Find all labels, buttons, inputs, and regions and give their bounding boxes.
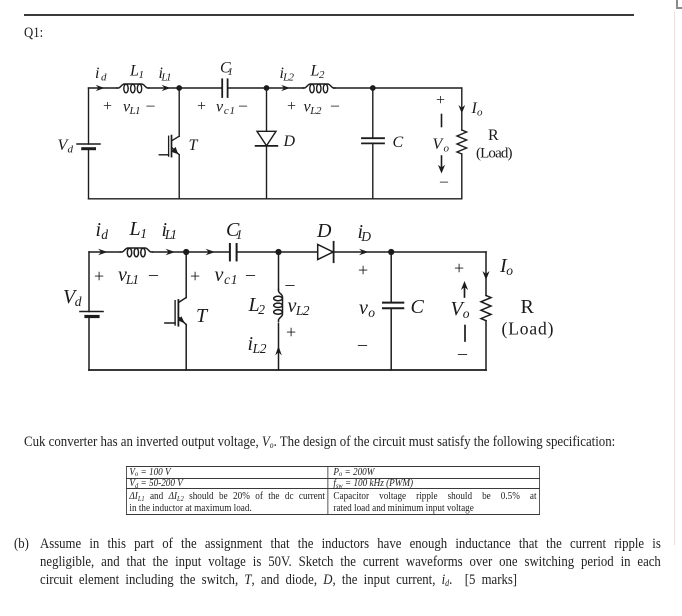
svg-text:–: –: [439, 173, 449, 190]
wire: circuit1 bottom rail: [89, 198, 462, 200]
capacitor C1 circuit1: [222, 79, 227, 97]
paragraph: specification intro: [24, 433, 625, 451]
arrow: current iL1 circuit1: [162, 85, 171, 91]
svg-text:iL1: iL1: [162, 219, 178, 242]
wire: circuit2 top rail left: [89, 251, 121, 253]
svg-text:–: –: [285, 274, 296, 294]
wire: circuit1 top rail middle: [149, 87, 222, 89]
capacitor C1 circuit2: [230, 244, 237, 260]
capacitor C circuit1: [362, 88, 384, 199]
wire: circuit2 bottom rail: [89, 369, 486, 371]
wire: circuit2 left branch upper: [88, 252, 90, 312]
svg-text:+: +: [286, 322, 296, 342]
wire: circuit1 right branch: [461, 88, 463, 130]
wire: circuit1 left branch lower: [88, 149, 90, 199]
node: junction capacitor C top circuit2: [388, 249, 394, 255]
wire: circuit2 L2 branch lower: [278, 324, 280, 371]
inductor L2 circuit1: [303, 84, 335, 93]
svg-text:–: –: [245, 264, 256, 284]
svg-text:(Load): (Load): [502, 319, 554, 339]
svg-text:L1: L1: [129, 63, 144, 82]
svg-text:L2: L2: [310, 63, 326, 82]
svg-text:vL1: vL1: [118, 264, 139, 287]
node: junction transistor T top circuit2: [183, 249, 189, 255]
svg-text:D: D: [283, 133, 296, 150]
battery Vd circuit1: [77, 144, 100, 149]
svg-text:vL2: vL2: [304, 99, 323, 118]
node: junction diode D top circuit1: [264, 85, 270, 91]
table: design specification: [126, 466, 540, 516]
svg-text:vo: vo: [359, 297, 375, 320]
svg-text:D: D: [316, 220, 332, 242]
inductor L1 circuit2: [121, 248, 153, 257]
wire: circuit2 right branch lower: [485, 321, 487, 370]
svg-text:+: +: [436, 92, 445, 109]
inductor L2 circuit2 (vertical): [274, 290, 283, 322]
svg-text:–: –: [238, 97, 248, 114]
paragraph: question (b): [14, 535, 661, 589]
top horizontal rule: [24, 14, 634, 16]
wire: circuit2 left branch lower: [88, 317, 90, 371]
svg-text:+: +: [94, 266, 104, 286]
svg-text:+: +: [454, 258, 464, 278]
svg-text:+: +: [358, 260, 368, 280]
svg-text:C: C: [411, 296, 425, 318]
svg-text:–: –: [330, 97, 340, 114]
svg-text:C: C: [393, 134, 404, 151]
svg-text:L1: L1: [129, 218, 148, 241]
svg-text:Vd: Vd: [63, 286, 82, 309]
wire: circuit1 top rail after C1: [228, 87, 304, 89]
svg-text:+: +: [287, 98, 296, 115]
arrow: current iD circuit2: [359, 249, 368, 256]
svg-text:vc1: vc1: [215, 264, 238, 287]
arrow: current Io circuit2: [482, 271, 489, 280]
svg-text:id: id: [95, 65, 107, 84]
arrow: current id circuit1: [96, 85, 105, 91]
svg-text:+: +: [197, 98, 206, 115]
wire: circuit2 right branch upper: [485, 252, 487, 296]
transistor T (IGBT) circuit2: [165, 252, 186, 370]
svg-text:–: –: [146, 97, 156, 114]
svg-text:(Load): (Load): [476, 146, 513, 162]
svg-text:R: R: [488, 127, 499, 144]
wire: circuit2 top rail after C1: [237, 251, 318, 253]
svg-text:vL1: vL1: [123, 99, 141, 118]
svg-text:+: +: [190, 266, 200, 286]
node: junction transistor T top circuit1: [176, 85, 182, 91]
arrow: current iL2 circuit1: [281, 85, 290, 91]
diode D circuit1: [256, 88, 278, 199]
svg-text:+: +: [103, 98, 112, 115]
svg-text:–: –: [357, 334, 368, 354]
diode D circuit2: [318, 242, 334, 262]
battery Vd circuit2: [80, 312, 103, 317]
svg-text:iL1: iL1: [159, 65, 172, 84]
svg-text:iL2: iL2: [280, 65, 295, 84]
node: junction inductor L2 top circuit2: [275, 249, 281, 255]
wire: circuit2 top rail right: [334, 251, 486, 253]
svg-text:Io: Io: [499, 255, 513, 278]
arrow: current iL2 circuit2 (upward): [275, 346, 282, 355]
arrow: Vo polarity circuit1 (tail bar and down arrow): [438, 115, 445, 174]
arrow: Vo polarity circuit2 (up arrow and tail bar): [461, 281, 468, 341]
svg-text:iL2: iL2: [248, 333, 267, 356]
wire: circuit2 L2 branch upper: [278, 252, 280, 290]
svg-text:vL2: vL2: [288, 295, 310, 318]
svg-text:C1: C1: [226, 219, 243, 242]
svg-text:L2: L2: [248, 294, 266, 317]
wire: circuit1 right branch lower: [461, 154, 463, 199]
inductor L1 circuit1: [117, 84, 149, 93]
svg-text:id: id: [96, 219, 109, 242]
svg-text:Vd: Vd: [58, 137, 74, 156]
svg-text:Io: Io: [471, 100, 484, 119]
svg-text:iD: iD: [358, 221, 372, 244]
resistor R load circuit1: [457, 130, 467, 154]
arrow: current Io circuit1: [458, 105, 465, 114]
transistor T (IGBT) circuit1: [159, 88, 179, 199]
svg-text:T: T: [196, 305, 209, 327]
wire: circuit2 top rail middle: [153, 251, 230, 253]
svg-text:T: T: [189, 137, 199, 154]
capacitor C circuit2: [383, 252, 403, 370]
svg-text:Vo: Vo: [433, 136, 450, 155]
arrow: current into C1 circuit2: [206, 249, 215, 256]
arrow: current id circuit2: [98, 249, 107, 256]
wire: circuit1 left branch upper: [88, 88, 90, 144]
label Q1: [24, 24, 43, 42]
wire: circuit1 top rail right: [334, 87, 462, 89]
arrow: current iL1 circuit2: [166, 249, 175, 256]
svg-text:R: R: [521, 296, 535, 318]
svg-text:Vo: Vo: [451, 298, 470, 321]
resistor R load circuit2: [481, 296, 491, 321]
svg-text:–: –: [457, 343, 468, 363]
svg-text:–: –: [148, 264, 159, 284]
svg-text:vc1: vc1: [216, 99, 235, 118]
wire: circuit1 top rail: [89, 87, 118, 89]
svg-text:C1: C1: [220, 60, 233, 79]
page corner mark top right: [676, 0, 678, 8]
faint page edge line right: [674, 11, 675, 545]
node: junction capacitor C top circuit1: [370, 85, 376, 91]
